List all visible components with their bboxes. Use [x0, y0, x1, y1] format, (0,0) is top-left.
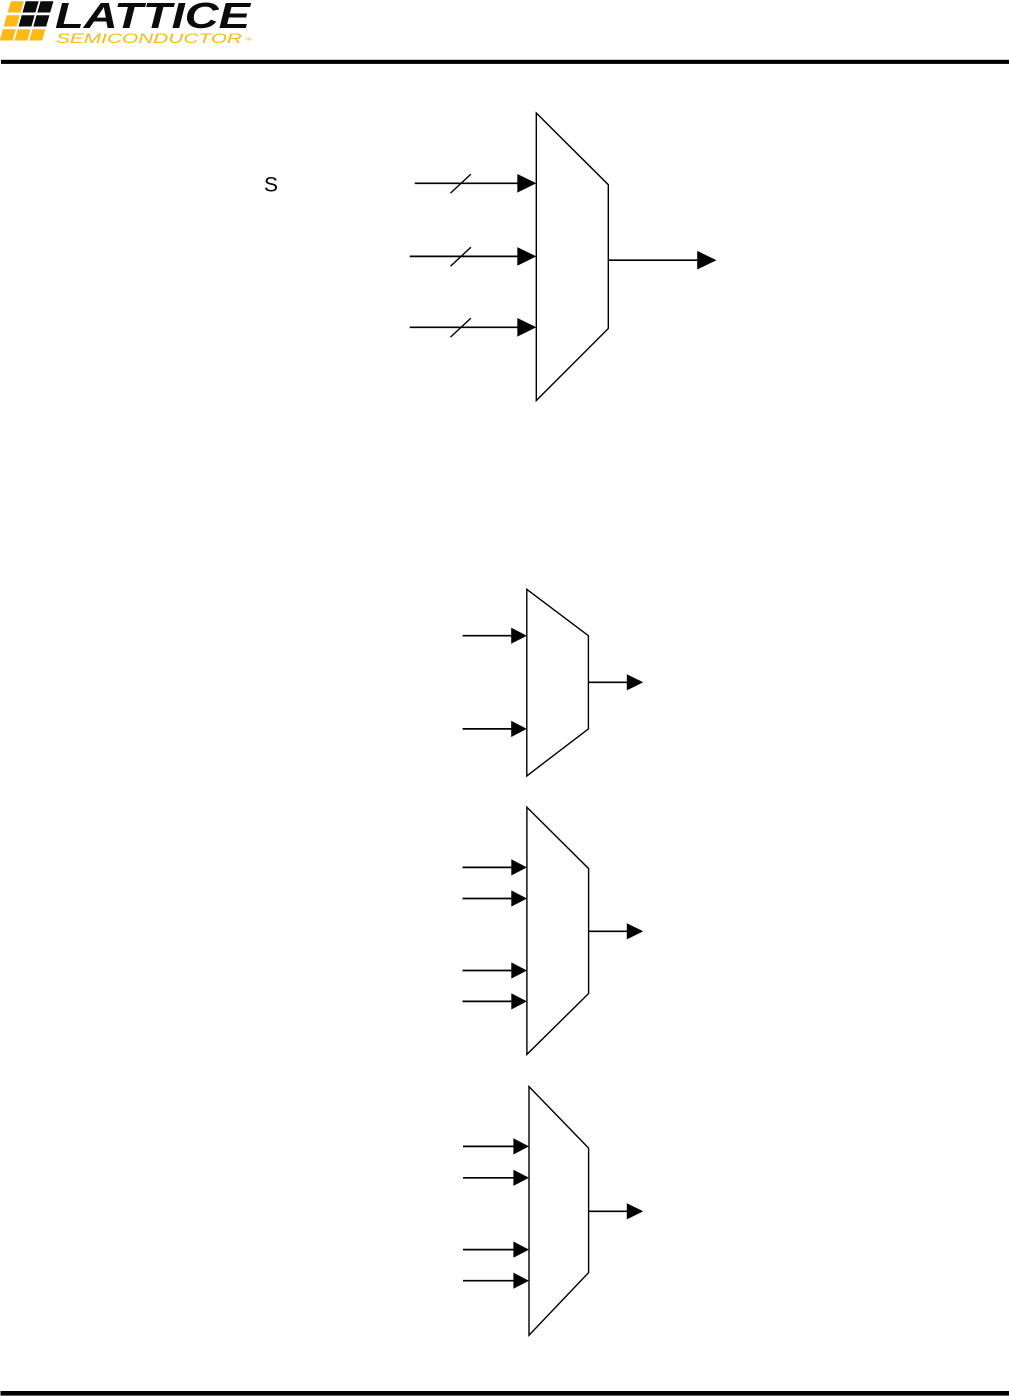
bus slash M1 input 1: [451, 174, 471, 193]
svg-text:S: S: [264, 173, 278, 196]
wire M3 input 4: [463, 1000, 513, 1002]
mux M2 trapezoid: [527, 589, 589, 776]
bus slash M1 input 3: [451, 318, 471, 337]
arrowhead M3 input 4: [511, 993, 527, 1009]
wire M4 output: [589, 1210, 628, 1212]
mux M4 trapezoid: [529, 1087, 589, 1336]
arrowhead M2 input 2: [511, 721, 527, 737]
svg-text:™: ™: [245, 37, 252, 44]
arrowhead M4 output: [627, 1203, 643, 1219]
arrowhead M2 output: [627, 674, 643, 690]
mux M1 trapezoid: [536, 113, 608, 401]
arrowhead M4 input 1: [513, 1138, 529, 1154]
svg-text:SEMICONDUCTOR: SEMICONDUCTOR: [56, 31, 242, 47]
arrowhead M4 input 2: [513, 1170, 529, 1186]
wire M3 input 1: [463, 866, 513, 868]
arrowhead M1 input 3: [517, 318, 536, 337]
arrowhead M3 input 1: [511, 859, 527, 875]
wire M3 input 3: [463, 970, 513, 972]
bus slash M1 input 2: [451, 247, 471, 266]
header rule: [1, 60, 1009, 64]
wire M2 input 1: [463, 635, 512, 637]
wire M1 input 2: [410, 255, 518, 257]
wire M1 input 1: [415, 182, 518, 184]
arrowhead M1 output: [697, 251, 716, 270]
arrowhead M1 input 1: [517, 174, 536, 193]
arrowhead M4 input 3: [513, 1242, 529, 1258]
wire M4 input 1: [463, 1145, 514, 1147]
arrowhead M3 input 2: [511, 890, 527, 906]
wire M2 input 2: [463, 728, 512, 730]
wire M1 output: [608, 259, 698, 261]
wire M3 input 2: [463, 898, 513, 900]
footer rule: [1, 1391, 1009, 1396]
arrowhead M1 input 2: [517, 247, 536, 266]
Lattice logo grid: [0, 1, 53, 40]
wire M1 input 3: [410, 326, 518, 328]
wire M4 input 3: [463, 1249, 514, 1251]
arrowhead M3 input 3: [511, 962, 527, 978]
arrowhead M4 input 4: [513, 1273, 529, 1289]
arrowhead M3 output: [627, 923, 643, 939]
arrowhead M2 input 1: [511, 628, 527, 644]
wire M3 output: [589, 930, 628, 932]
wire M4 input 4: [463, 1280, 514, 1282]
wire M4 input 2: [463, 1177, 514, 1179]
mux M3 trapezoid: [527, 807, 589, 1054]
wire M2 output: [588, 681, 627, 683]
